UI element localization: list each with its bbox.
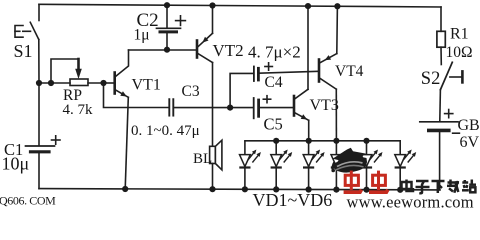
svg-text:VT1: VT1 — [132, 76, 161, 93]
svg-text:S1: S1 — [14, 41, 33, 61]
svg-text:4. 7k: 4. 7k — [63, 102, 94, 118]
svg-text:VT3: VT3 — [310, 97, 339, 114]
svg-text:1μ: 1μ — [134, 26, 150, 43]
svg-text:Q606. COM: Q606. COM — [0, 193, 56, 207]
svg-text:www.eeworm.com: www.eeworm.com — [347, 193, 474, 210]
svg-text:R1: R1 — [450, 26, 469, 43]
svg-text:0. 1~0. 47μ: 0. 1~0. 47μ — [131, 123, 200, 139]
svg-text:C3: C3 — [182, 83, 200, 100]
svg-text:VD1~VD6: VD1~VD6 — [253, 190, 333, 209]
svg-text:GB: GB — [458, 117, 480, 134]
svg-text:4. 7μ×2: 4. 7μ×2 — [248, 43, 301, 62]
svg-text:S2: S2 — [421, 69, 441, 89]
svg-text:C4: C4 — [265, 74, 283, 91]
svg-text:6V: 6V — [460, 134, 480, 151]
svg-text:C5: C5 — [264, 115, 283, 134]
svg-text:VT4: VT4 — [335, 63, 364, 80]
svg-text:BL: BL — [193, 151, 212, 167]
svg-text:VT2: VT2 — [213, 41, 244, 60]
svg-text:10Ω: 10Ω — [446, 44, 473, 61]
svg-text:10μ: 10μ — [2, 153, 30, 173]
